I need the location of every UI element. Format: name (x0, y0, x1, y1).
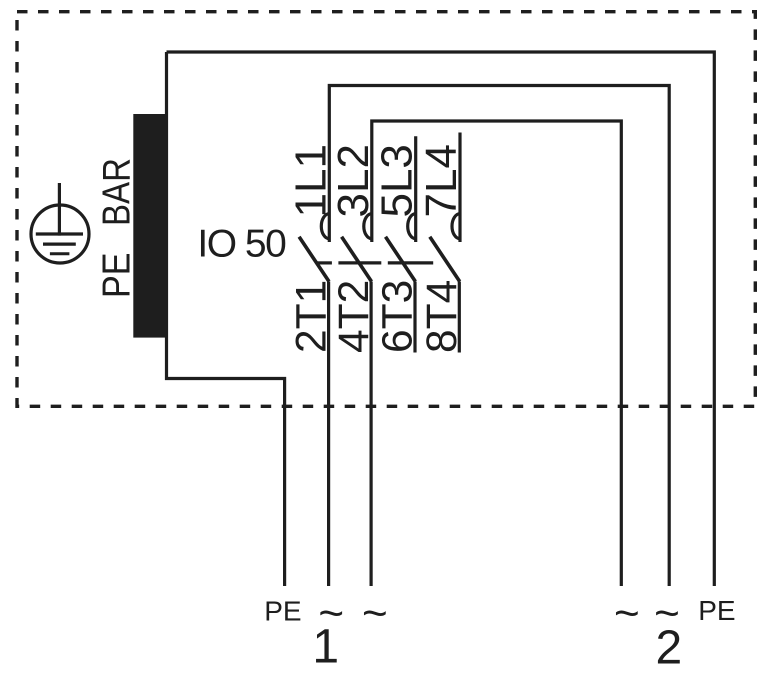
svg-text:BAR: BAR (96, 158, 139, 226)
svg-text:2T1: 2T1 (288, 280, 335, 353)
svg-text:7L4: 7L4 (417, 144, 466, 217)
svg-text:5L3: 5L3 (373, 144, 422, 217)
svg-text:8T4: 8T4 (419, 280, 466, 353)
svg-text:2: 2 (655, 622, 682, 675)
svg-text:4T2: 4T2 (331, 280, 378, 353)
svg-text:PE: PE (698, 595, 735, 626)
svg-text:PE: PE (96, 253, 139, 299)
svg-text:IO 50: IO 50 (197, 222, 286, 265)
svg-text:1: 1 (312, 621, 339, 674)
svg-text:3L2: 3L2 (329, 144, 378, 217)
svg-text:~: ~ (614, 589, 640, 638)
svg-text:PE: PE (264, 596, 301, 627)
svg-text:6T3: 6T3 (375, 280, 422, 353)
svg-text:~: ~ (362, 589, 388, 638)
